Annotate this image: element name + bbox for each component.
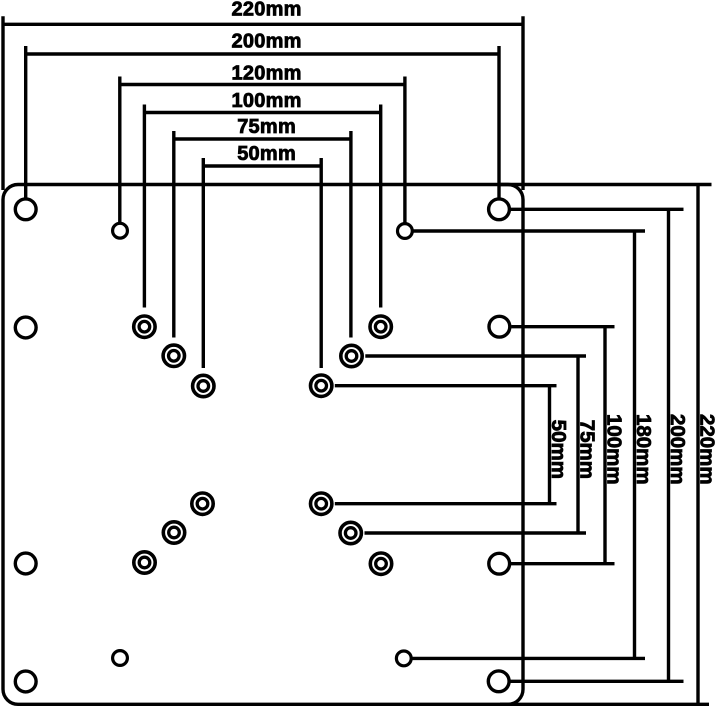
svg-text:75mm: 75mm [237, 116, 296, 138]
svg-text:50mm: 50mm [547, 420, 570, 479]
svg-text:50mm: 50mm [237, 143, 296, 165]
svg-text:220mm: 220mm [695, 414, 718, 485]
svg-text:75mm: 75mm [575, 420, 598, 479]
svg-text:200mm: 200mm [666, 414, 689, 485]
svg-text:120mm: 120mm [232, 63, 302, 85]
svg-text:180mm: 180mm [632, 414, 655, 485]
svg-text:200mm: 200mm [232, 31, 302, 53]
svg-text:100mm: 100mm [602, 414, 625, 485]
svg-text:220mm: 220mm [232, 0, 302, 21]
svg-text:100mm: 100mm [232, 90, 302, 112]
